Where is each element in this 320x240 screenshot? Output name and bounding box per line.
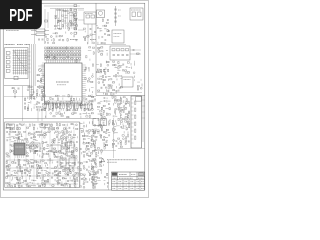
resistor R2 xyxy=(43,86,44,88)
wire W241 xyxy=(35,139,38,141)
resistor R135 xyxy=(112,82,114,83)
wire W90 xyxy=(62,95,65,97)
connector CN103 xyxy=(14,76,18,80)
wire kb exit 1 xyxy=(28,51,31,53)
capacitor C171 xyxy=(100,169,102,170)
wire U201 rp14 xyxy=(82,91,86,93)
label lbl11 xyxy=(138,177,144,179)
resistor RN409 xyxy=(68,58,70,60)
wire U201 bp15 xyxy=(71,103,73,106)
wire W170 xyxy=(109,119,111,121)
resistor RN3012 xyxy=(76,54,78,56)
transformer T401 xyxy=(66,142,74,152)
wire U201 bp12 xyxy=(66,103,68,106)
resistor R200 xyxy=(127,135,128,137)
wire bx vchain 10 xyxy=(9,124,11,186)
wire W141 xyxy=(128,67,130,69)
resistor R377 xyxy=(42,177,43,179)
wire W352 xyxy=(81,152,83,154)
resistor R318 xyxy=(71,155,72,157)
capacitor C150 xyxy=(76,180,78,181)
transistor Q64 xyxy=(86,130,88,132)
resistor R242 xyxy=(56,128,58,129)
resistor R188 xyxy=(118,118,119,120)
resistor R436 xyxy=(83,178,85,179)
capacitor C69 xyxy=(103,124,105,125)
resistor R442 xyxy=(100,161,102,162)
wire W27 xyxy=(78,9,84,11)
resistor R312 xyxy=(88,104,90,108)
wire top h1 xyxy=(44,5,80,7)
transistor Q29 xyxy=(113,139,115,141)
resistor R170 xyxy=(126,99,127,101)
title row line 3 xyxy=(112,182,145,184)
resistor R203 xyxy=(112,143,114,144)
wire W215 xyxy=(39,123,42,125)
resistor R360 xyxy=(70,169,71,171)
wire W183 xyxy=(115,115,117,117)
wire U201 tp8 xyxy=(58,60,60,63)
resistor R42 xyxy=(47,56,49,57)
capacitor C103 xyxy=(52,139,54,140)
wire W89 xyxy=(57,95,59,97)
resistor R158 xyxy=(103,119,105,120)
wire B drop1 xyxy=(87,24,89,44)
resistor R70 xyxy=(83,104,85,105)
wire W67 xyxy=(55,108,57,111)
resistor R238 xyxy=(44,127,45,129)
resistor R161 xyxy=(100,126,102,127)
label note line 1 xyxy=(107,159,137,161)
resistor R400 xyxy=(52,185,54,186)
wire W160 xyxy=(141,84,143,87)
resistor R452 xyxy=(93,186,94,188)
resistor R313 xyxy=(71,152,72,154)
wire W26 xyxy=(57,28,59,30)
CRT label box xyxy=(136,97,142,102)
capacitor C90 xyxy=(44,124,46,125)
wire W226 xyxy=(46,134,48,136)
resistor R194 xyxy=(127,121,129,122)
label cell r4 c2 xyxy=(125,184,128,186)
resistor R58 xyxy=(91,96,93,97)
wire W185 xyxy=(115,120,117,123)
resistor R322 xyxy=(34,160,36,161)
resistor R19 xyxy=(62,25,63,27)
wire U201 tp13 xyxy=(68,60,70,63)
resistor R187 xyxy=(128,115,129,117)
wire W119 xyxy=(30,101,32,104)
label cell r3 c3 xyxy=(131,181,134,183)
wire W358 xyxy=(88,166,90,168)
label lbl1 xyxy=(85,13,93,15)
wire W9 xyxy=(72,11,74,14)
transistor Q4 xyxy=(70,32,72,34)
wire W138 xyxy=(133,63,135,66)
capacitor C115 xyxy=(19,159,21,160)
wire U401 bp3 xyxy=(21,155,23,158)
IC U302 xyxy=(112,30,124,43)
wire pinline 2 xyxy=(57,9,59,30)
resistor R379 xyxy=(77,177,78,179)
wire bus4 xyxy=(34,44,36,86)
wire kb exit 2 xyxy=(28,55,31,57)
wire W143 xyxy=(104,69,107,71)
wire U201 rp11 xyxy=(82,85,86,87)
wire W321 xyxy=(33,180,36,182)
resistor R364 xyxy=(36,172,37,174)
resistor R168 xyxy=(117,100,119,101)
capacitor C79 xyxy=(128,141,130,142)
resistor R257 xyxy=(28,134,30,135)
wire W331 xyxy=(61,181,63,184)
wire U201 lp1 xyxy=(41,64,45,66)
resistor R24 xyxy=(55,33,57,34)
resistor R311 xyxy=(84,104,86,108)
capacitor C123 xyxy=(47,167,49,168)
resistor R385 xyxy=(9,182,10,184)
resistor RN108 xyxy=(66,47,68,49)
wire U201 tp5 xyxy=(53,60,55,63)
wire W303 xyxy=(57,171,59,173)
resistor R280 xyxy=(42,142,43,144)
resistor R126 xyxy=(97,72,99,73)
resistor R111 xyxy=(98,50,99,52)
wire kb row 2 xyxy=(13,52,28,54)
resistor R345 xyxy=(20,166,21,168)
wire W13 xyxy=(70,15,73,17)
resistor R107 xyxy=(27,108,28,110)
wire W24 xyxy=(72,24,75,26)
transistor Q2 xyxy=(67,10,69,12)
wire bx vchain 58 xyxy=(57,124,59,186)
resistor R45 xyxy=(76,60,77,62)
wire W117 xyxy=(36,96,38,98)
resistor R239 xyxy=(48,128,50,129)
label cell r3 c1 xyxy=(119,181,122,183)
wire U201 bp9 xyxy=(60,103,62,106)
wire W359 xyxy=(90,173,93,175)
wire W145 xyxy=(125,72,127,74)
wire W54 xyxy=(88,89,90,92)
resistor R124 xyxy=(108,69,109,71)
wire W124 xyxy=(39,108,41,111)
wire W177 xyxy=(120,103,122,105)
label cell r3 c5 xyxy=(141,181,144,183)
wire U201 rp4 xyxy=(82,70,86,72)
wire W35 xyxy=(84,31,86,33)
microcontroller U201 body xyxy=(45,63,83,103)
wire W330 xyxy=(46,182,49,184)
wire W307 xyxy=(26,174,28,176)
wire W365 xyxy=(100,153,102,155)
capacitor C82 xyxy=(103,132,105,133)
transistor Q63 xyxy=(94,124,96,126)
resistor R167 xyxy=(114,100,116,101)
wire W248 xyxy=(58,142,60,144)
wire crt right bus xyxy=(142,96,144,142)
wire W72 xyxy=(66,101,68,104)
wire W298 xyxy=(41,169,44,171)
resistor R425 xyxy=(89,155,91,156)
wire kb col 4 xyxy=(19,50,21,75)
resistor R373 xyxy=(57,174,58,176)
resistor R3 xyxy=(37,90,38,92)
wire crt pin 1 xyxy=(131,98,134,100)
resistor R111 xyxy=(25,98,26,101)
wire W180 xyxy=(125,106,127,108)
schematic border frame xyxy=(3,3,145,190)
resistor R252 xyxy=(55,131,57,132)
resistor R276 xyxy=(10,150,11,152)
transistor Q75 xyxy=(80,186,82,188)
resistor R115 xyxy=(37,75,39,76)
resistor R148 xyxy=(103,105,105,106)
resistor R444 xyxy=(92,166,94,167)
wire W319 xyxy=(26,180,28,182)
wire U201 tp9 xyxy=(60,60,62,63)
transistor Q35 xyxy=(76,124,78,126)
resistor R79 xyxy=(73,110,75,111)
transistor Q14 xyxy=(92,109,94,111)
capacitor C15 xyxy=(108,31,110,32)
resistor R308 xyxy=(73,104,75,108)
capacitor C87 xyxy=(16,125,18,126)
wire W308 xyxy=(42,174,44,176)
wire bx vchain 18 xyxy=(17,124,19,186)
wire W353 xyxy=(88,158,90,160)
IC U103 inner R xyxy=(91,15,95,18)
wire W74 xyxy=(70,101,72,104)
wire W191 xyxy=(122,125,124,128)
resistor R362 xyxy=(21,172,22,174)
resistor R152 xyxy=(103,110,104,112)
wire v-wire x22 xyxy=(22,86,24,121)
wire U201 rp2 xyxy=(82,66,86,68)
wire U201 tp6 xyxy=(55,60,57,63)
capacitor C77 xyxy=(120,127,122,128)
wire W188 xyxy=(122,123,124,125)
switch S301 xyxy=(132,12,136,17)
resistor R193 xyxy=(125,121,127,122)
resistor R429 xyxy=(80,168,81,170)
warning triangle note symbol xyxy=(101,158,105,162)
wire h-wire y44 xyxy=(97,44,126,46)
resistor R410 xyxy=(86,135,88,136)
resistor R82 xyxy=(88,109,90,110)
resistor R80 xyxy=(135,101,136,104)
wire W11 xyxy=(54,15,57,17)
resistor R315 xyxy=(54,155,55,157)
wire W87 xyxy=(91,108,93,111)
resistor R250 xyxy=(44,132,46,133)
resistor R226 xyxy=(51,124,52,126)
resistor R82 xyxy=(135,115,136,118)
resistor R142 xyxy=(105,93,107,94)
capacitor C106 xyxy=(76,142,78,143)
wire U401 tp0 xyxy=(14,140,16,143)
wire U201 tp7 xyxy=(57,60,59,63)
capacitor C52 xyxy=(101,79,103,80)
resistor R67 xyxy=(55,103,57,104)
capacitor C3013 xyxy=(114,13,117,14)
resistor R143 xyxy=(111,93,112,95)
wire U201 rp5 xyxy=(82,72,86,74)
resistor R319 xyxy=(74,155,75,157)
label cell r3 c4 xyxy=(137,181,140,183)
resistor R34 xyxy=(106,22,108,23)
wire W47 xyxy=(50,39,52,41)
resistor R341 xyxy=(31,165,33,166)
resistor R448 xyxy=(92,177,94,178)
capacitor C11 xyxy=(90,28,92,29)
resistor RN3010 xyxy=(71,54,73,56)
wire W154 xyxy=(102,93,104,95)
resistor R173 xyxy=(126,101,127,103)
transistor Q66 xyxy=(88,142,90,144)
wire W34 xyxy=(59,39,61,41)
resistor R80 xyxy=(75,109,77,110)
svg-text:PDF: PDF xyxy=(9,5,32,25)
wire rowwire1 xyxy=(45,52,82,54)
resistor R94 xyxy=(30,86,32,87)
resistor R87 xyxy=(74,112,76,113)
wire W81 xyxy=(80,108,82,111)
capacitor C144 xyxy=(74,178,76,179)
wire W88 xyxy=(45,95,47,97)
resistor R74 xyxy=(73,106,74,108)
resistor R247 xyxy=(18,132,20,133)
resistor R65 xyxy=(46,103,48,104)
resistor RN4012 xyxy=(76,58,78,60)
heatsink Q402 xyxy=(69,158,75,166)
wire W329 xyxy=(37,183,39,185)
resistor R136 xyxy=(108,84,110,85)
resistor R78 xyxy=(67,109,69,110)
resistor R338 xyxy=(8,165,10,166)
capacitor C155 xyxy=(94,140,96,141)
wire W84 xyxy=(87,101,89,104)
capacitor C12 xyxy=(94,30,96,33)
wire top h2 xyxy=(50,8,84,10)
capacitor C125 xyxy=(72,167,74,168)
resistor R282 xyxy=(62,141,63,143)
resistor R177 xyxy=(124,106,125,108)
resistor R191 xyxy=(112,121,113,123)
wire W239 xyxy=(18,138,21,140)
wire W202 xyxy=(127,131,129,134)
wire W221 xyxy=(41,130,43,133)
resistor R371 xyxy=(43,175,45,176)
resistor R286 xyxy=(31,145,33,146)
resistor R336 xyxy=(74,162,75,164)
title row line 2 xyxy=(112,179,145,181)
wire W327 xyxy=(29,182,31,184)
resistor R285 xyxy=(26,144,28,145)
switch SW102 xyxy=(6,56,10,59)
wire h92 xyxy=(97,92,142,94)
label cell r5 c4 xyxy=(137,187,140,189)
resistor R291 xyxy=(26,147,28,148)
resistor RN100 xyxy=(45,47,47,49)
wire W261 xyxy=(29,150,31,152)
capacitor C159 xyxy=(86,161,88,162)
capacitor C112 xyxy=(51,151,53,152)
wire W6 xyxy=(43,80,47,82)
wire W113 xyxy=(32,89,34,91)
resistor R302 xyxy=(48,150,50,151)
wire W314 xyxy=(39,177,41,179)
wire W287 xyxy=(47,164,49,166)
capacitor C170 xyxy=(95,164,97,165)
resistor R171 xyxy=(115,101,116,103)
resistor R129 xyxy=(127,72,129,73)
title row line 4 xyxy=(112,186,145,188)
wire W315 xyxy=(65,178,67,180)
logo cell fill xyxy=(112,173,116,176)
resistor R185 xyxy=(126,114,128,115)
wire U401 tp2 xyxy=(18,140,20,143)
wire W147 xyxy=(108,75,111,77)
capacitor C35 xyxy=(28,87,30,88)
wire W76 xyxy=(73,101,75,104)
wire W225 xyxy=(21,134,23,137)
heatsink Q401 xyxy=(60,158,66,166)
resistor R213 xyxy=(92,140,94,141)
capacitor C107 xyxy=(51,144,53,145)
wire W136 xyxy=(119,65,123,67)
wire W370 xyxy=(106,177,109,179)
capacitor C30 xyxy=(44,107,46,108)
wire W95 xyxy=(60,100,62,102)
wire pinline 1 xyxy=(55,9,57,30)
resistor R197 xyxy=(129,125,130,127)
capacitor C174 xyxy=(95,174,97,175)
transistor Q31 xyxy=(125,140,127,142)
wire W75 xyxy=(70,108,72,111)
capacitor C46 xyxy=(120,67,122,68)
resistor R414 xyxy=(83,143,85,144)
resistor R28 xyxy=(83,28,85,29)
resistor R260 xyxy=(44,134,46,135)
wire W247 xyxy=(44,141,47,143)
capacitor C131 xyxy=(49,172,51,173)
capacitor C178 xyxy=(107,182,109,183)
resistor R327 xyxy=(12,162,14,163)
resistor R323 xyxy=(42,160,44,161)
resistor R381 xyxy=(44,180,46,181)
wire W63 xyxy=(48,108,50,111)
capacitor C55 xyxy=(101,87,103,88)
resistor R326 xyxy=(6,161,7,163)
resistor R44 xyxy=(67,56,69,57)
resistor R140 xyxy=(97,90,99,91)
wire W229 xyxy=(6,137,8,139)
wire W135 xyxy=(118,64,120,66)
resistor R130 xyxy=(102,75,103,77)
wire W313 xyxy=(29,177,31,179)
resistor RN103 xyxy=(52,47,54,49)
capacitor C135 xyxy=(11,175,13,176)
wire W246 xyxy=(12,152,14,154)
label cell r5 c3 xyxy=(131,187,134,189)
resistor RN407 xyxy=(63,58,65,60)
wire W69 xyxy=(59,108,61,111)
wire W181 xyxy=(114,114,116,116)
wire U201 tp18 xyxy=(77,60,79,63)
transistor Q23 xyxy=(98,82,100,84)
wire kb col 6 xyxy=(23,50,25,75)
